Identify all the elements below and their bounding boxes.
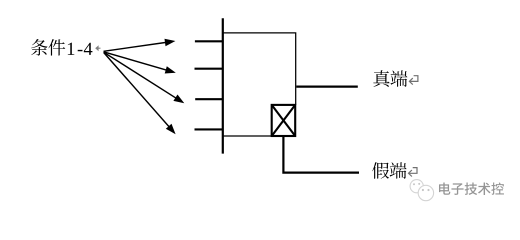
condition input wire 4 xyxy=(195,128,224,130)
arrow to condition input 3 xyxy=(104,52,185,103)
decision box U1 xyxy=(223,33,296,136)
arrow to condition input 1 xyxy=(104,39,176,52)
vertical input bus line xyxy=(222,18,224,153)
watermark text 电子技术控 xyxy=(439,182,504,194)
condition input wire 1 xyxy=(195,40,224,42)
label 真端 (true end) xyxy=(373,70,407,87)
wire to 假端 (false end) xyxy=(283,137,359,173)
negation box (X) xyxy=(272,105,296,136)
line-break mark after 真端 xyxy=(409,76,418,85)
label "条件 1-4" xyxy=(31,39,92,56)
arrow to condition input 4 xyxy=(104,53,176,135)
label 假端 (false end) xyxy=(372,162,406,179)
condition input wire 3 xyxy=(195,98,223,100)
line-break mark after 假端 xyxy=(409,168,418,177)
condition input wire 2 xyxy=(195,68,224,70)
line-break mark after label xyxy=(95,45,100,51)
wire to 真端 (true end) xyxy=(296,85,358,87)
watermark icon xyxy=(410,180,433,201)
arrow to condition input 2 xyxy=(104,52,176,74)
